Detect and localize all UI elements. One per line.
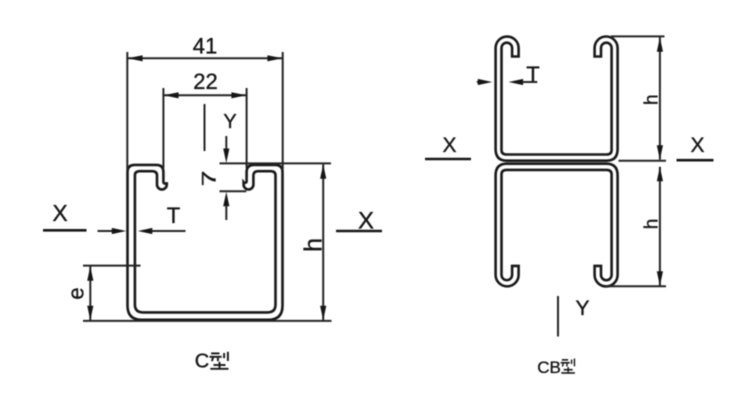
svg-text:h: h (642, 219, 663, 230)
svg-text:41: 41 (193, 34, 217, 59)
svg-text:Y: Y (223, 111, 236, 133)
svg-text:h: h (300, 238, 328, 252)
svg-text:h: h (641, 94, 662, 105)
svg-text:22: 22 (193, 69, 217, 94)
svg-text:C: C (195, 351, 209, 373)
svg-text:Y: Y (575, 297, 589, 320)
svg-text:T: T (167, 203, 180, 228)
svg-text:CB: CB (537, 358, 561, 377)
svg-text:X: X (442, 134, 456, 157)
svg-text:T: T (526, 62, 539, 87)
svg-text:e: e (64, 287, 89, 299)
svg-text:X: X (52, 200, 67, 226)
svg-text:X: X (690, 134, 704, 157)
svg-text:7: 7 (199, 170, 220, 186)
